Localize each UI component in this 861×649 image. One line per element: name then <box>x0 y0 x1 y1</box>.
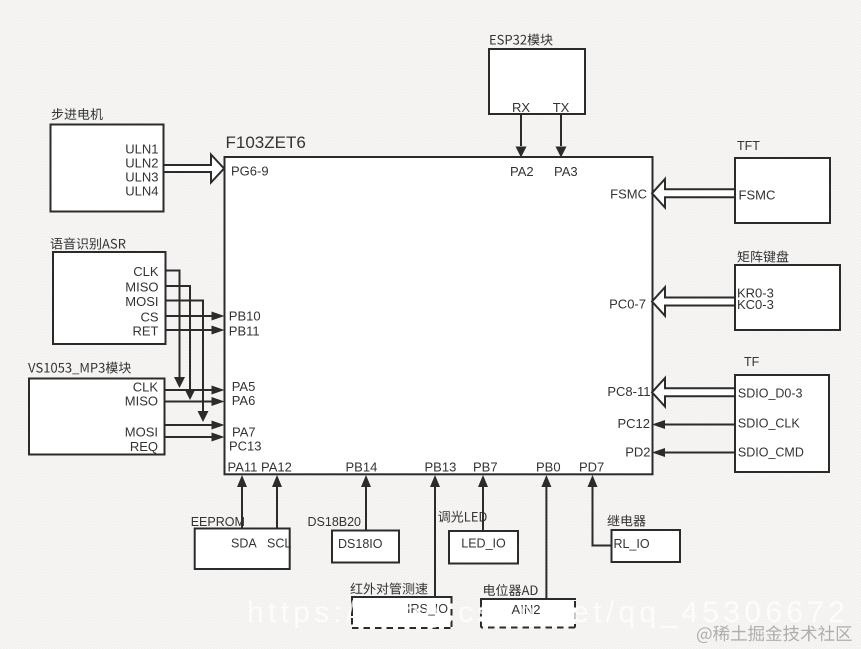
svg-text:RET: RET <box>133 324 159 339</box>
svg-text:MOSI: MOSI <box>125 425 158 440</box>
module IR-speed box <box>352 597 452 628</box>
module potentiometer box <box>481 599 575 628</box>
svg-text:PC13: PC13 <box>229 439 262 454</box>
svg-text:https://blog.csdn.net/qq_45306: https://blog.csdn.net/qq_45306672 <box>247 596 849 629</box>
svg-text:CS: CS <box>140 310 158 325</box>
wire ESP32 TX to PA3 <box>560 114 562 146</box>
svg-text:RX: RX <box>512 100 530 115</box>
svg-text:EEPROM: EEPROM <box>191 515 245 529</box>
label 调光LED <box>438 511 486 523</box>
svg-text:PB13: PB13 <box>425 459 457 474</box>
svg-text:ULN2: ULN2 <box>125 156 158 171</box>
label 语音识别ASR <box>51 238 126 250</box>
svg-text:SDIO_D0-3: SDIO_D0-3 <box>738 387 803 401</box>
svg-text:ULN3: ULN3 <box>125 170 158 185</box>
wire ASR RET to PB11 <box>166 329 213 331</box>
svg-text:RL_IO: RL_IO <box>614 537 650 551</box>
wire EEPROM SDA to PA11 <box>241 487 243 529</box>
module matrix-keyboard box <box>735 265 840 330</box>
label 矩阵键盘 <box>738 250 789 262</box>
svg-text:CLK: CLK <box>133 380 159 395</box>
svg-text:F103ZET6: F103ZET6 <box>226 133 306 152</box>
wire TF SDIO_CLK to PC12 <box>664 424 735 426</box>
module ESP32 box <box>489 49 585 114</box>
module DS18B20 box <box>332 531 399 563</box>
svg-text:PA5: PA5 <box>232 379 256 394</box>
svg-text:PA7: PA7 <box>232 425 256 440</box>
module EEPROM box <box>195 529 290 570</box>
module ASR box <box>53 252 166 344</box>
label 继电器 <box>608 515 646 527</box>
svg-text:PA12: PA12 <box>261 459 292 474</box>
svg-text:TFT: TFT <box>737 139 760 153</box>
svg-text:PA2: PA2 <box>510 164 534 179</box>
module TF box <box>735 375 829 472</box>
svg-text:PC12: PC12 <box>617 416 650 431</box>
wire DS18IO to PB14 <box>365 487 367 531</box>
svg-text:MISO: MISO <box>125 280 158 295</box>
label 红外对管测速 <box>350 583 427 595</box>
module TFT box <box>735 158 830 223</box>
label VS1053_MP3模块 <box>28 362 131 375</box>
wire VS1053 MISO to PA6 <box>165 401 213 403</box>
svg-text:PC0-7: PC0-7 <box>609 297 646 312</box>
wire AIN2 to PB0 <box>545 487 547 599</box>
block arrow TF SDIO_D0-3 to PC8-11 <box>652 378 735 407</box>
label ESP32模块 <box>490 34 552 46</box>
svg-text:FSMC: FSMC <box>739 187 776 202</box>
wire EEPROM SCL to PA12 <box>276 487 278 529</box>
svg-text:PC8-11: PC8-11 <box>607 384 650 399</box>
svg-text:MOSI: MOSI <box>125 294 158 309</box>
wire ASR CS to PB10 <box>166 315 213 317</box>
svg-text:REQ: REQ <box>130 439 158 454</box>
wire ASR CLK down to VS1053 CLK net <box>166 271 180 378</box>
svg-text:SCL: SCL <box>267 537 291 551</box>
svg-text:PD2: PD2 <box>625 445 650 460</box>
svg-text:PD7: PD7 <box>579 459 604 474</box>
svg-text:ULN4: ULN4 <box>125 184 158 199</box>
wire VS1053 CLK to PA5 <box>165 389 213 391</box>
wire ESP32 RX to PA2 <box>520 114 522 146</box>
module VS1053 box <box>29 379 165 455</box>
watermark juejin <box>697 625 852 643</box>
svg-text:PB10: PB10 <box>229 309 261 324</box>
label 步进电机 <box>52 108 103 120</box>
label 电位器AD <box>484 584 537 596</box>
wire RL_IO to PD7 <box>593 487 612 546</box>
svg-text:DS18B20: DS18B20 <box>308 515 362 529</box>
svg-text:CLK: CLK <box>133 264 159 279</box>
svg-text:LED_IO: LED_IO <box>461 537 506 551</box>
svg-text:PB14: PB14 <box>346 459 378 474</box>
wire LED_IO to PB7 <box>482 487 484 531</box>
wire VS1053 MOSI to PA7 <box>165 424 213 426</box>
module stepper-motor box <box>51 125 164 212</box>
svg-text:SDA: SDA <box>231 537 257 551</box>
svg-text:ULN1: ULN1 <box>125 142 158 157</box>
svg-text:SDIO_CMD: SDIO_CMD <box>738 446 804 460</box>
svg-text:FSMC: FSMC <box>610 186 647 201</box>
MCU U1 F103ZET6 box <box>225 157 653 474</box>
module LED box <box>449 531 518 564</box>
wire ASR MISO down to VS1053 MISO net <box>166 286 191 389</box>
svg-text:KC0-3: KC0-3 <box>737 297 774 312</box>
module relay box <box>612 530 681 562</box>
wire VS1053 REQ to PC13 <box>165 436 213 438</box>
svg-text:TF: TF <box>744 355 760 369</box>
svg-text:TX: TX <box>553 100 570 115</box>
wire ASR MOSI down to VS1053 MOSI net <box>166 301 204 412</box>
svg-text:PB11: PB11 <box>229 324 260 339</box>
svg-text:PA6: PA6 <box>232 393 256 408</box>
block arrow stepper to PG6-9 <box>164 155 225 183</box>
wire TF SDIO_CMD to PD2 <box>664 452 735 454</box>
svg-text:PB0: PB0 <box>536 459 561 474</box>
block arrow keyboard to PC0-7 <box>652 287 735 316</box>
svg-text:DS18IO: DS18IO <box>338 537 383 551</box>
svg-text:PA11: PA11 <box>228 459 258 474</box>
svg-text:SDIO_CLK: SDIO_CLK <box>738 417 800 431</box>
svg-text:PB7: PB7 <box>473 459 498 474</box>
svg-text:MISO: MISO <box>125 394 158 409</box>
svg-text:PA3: PA3 <box>554 164 578 179</box>
svg-text:PG6-9: PG6-9 <box>231 164 269 179</box>
block arrow TFT FSMC to MCU <box>652 179 735 208</box>
wire IRS_IO to PB13 <box>434 487 436 597</box>
